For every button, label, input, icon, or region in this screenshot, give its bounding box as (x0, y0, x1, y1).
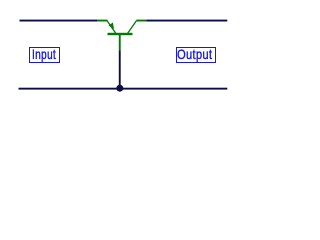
wire: Input net top horizontal segment (20, 20, 98, 22)
base lead vertical (119, 35, 121, 51)
wire: bottom bus horizontal (19, 88, 228, 90)
base bar (108, 33, 133, 35)
node label Input (29, 47, 60, 63)
emitter arrowhead (109, 23, 115, 30)
wire: base vertical segment (119, 51, 121, 89)
junction node (116, 85, 123, 92)
collector stub (136, 20, 146, 22)
emitter diagonal (107, 21, 116, 33)
transistor Q1 (PNP) (97, 20, 146, 51)
emitter stub (97, 20, 108, 22)
node label Output (176, 47, 217, 63)
wire: Output net top horizontal segment (146, 20, 227, 22)
collector diagonal (128, 21, 137, 34)
